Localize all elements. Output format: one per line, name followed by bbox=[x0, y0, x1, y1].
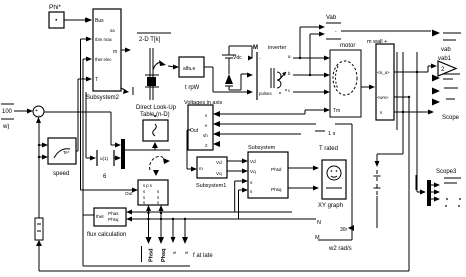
svg-text:flux calculation: flux calculation bbox=[87, 232, 126, 238]
svg-text:speed: speed bbox=[53, 171, 69, 177]
svg-text:T rated: T rated bbox=[319, 146, 338, 152]
svg-text:Vq: Vq bbox=[216, 171, 222, 176]
svg-text:s: s bbox=[380, 110, 382, 115]
svg-text:Phas: Phas bbox=[108, 211, 119, 216]
svg-text:Vd: Vd bbox=[250, 159, 256, 164]
svg-text:Scope: Scope bbox=[442, 115, 460, 121]
svg-text:s: s bbox=[157, 200, 159, 205]
svg-text:motor: motor bbox=[340, 43, 355, 49]
svg-text:s: s bbox=[143, 200, 145, 205]
svg-text:pulses: pulses bbox=[259, 91, 272, 96]
svg-text:m: m bbox=[199, 166, 203, 171]
svg-text:Phsd: Phsd bbox=[149, 249, 155, 262]
svg-text:<wm>: <wm> bbox=[377, 95, 389, 100]
svg-text:thet elec: thet elec bbox=[95, 57, 112, 62]
svg-text:Phsd: Phsd bbox=[271, 167, 282, 172]
svg-text:Bus: Bus bbox=[95, 18, 104, 24]
svg-text:alfa.e: alfa.e bbox=[183, 66, 195, 72]
svg-text:s: s bbox=[157, 189, 159, 194]
svg-text:vab: vab bbox=[441, 47, 451, 53]
svg-text:2-D T[k]: 2-D T[k] bbox=[139, 37, 161, 43]
svg-text:Phi*: Phi* bbox=[49, 4, 61, 11]
svg-text:Subsystem2: Subsystem2 bbox=[86, 95, 120, 101]
svg-text:f at late: f at late bbox=[193, 253, 213, 259]
svg-text:Vd: Vd bbox=[216, 160, 222, 165]
svg-text:inverter: inverter bbox=[268, 45, 287, 51]
svg-text:Out: Out bbox=[190, 128, 199, 134]
svg-text:Direct Look-Up: Direct Look-Up bbox=[136, 105, 177, 111]
svg-text:w2 rad/s: w2 rad/s bbox=[328, 246, 352, 252]
svg-text:Subsystem1: Subsystem1 bbox=[196, 183, 226, 189]
svg-text:sa: sa bbox=[110, 28, 115, 33]
svg-text:s p s: s p s bbox=[143, 183, 152, 188]
svg-text:Scope3: Scope3 bbox=[436, 169, 457, 175]
svg-text:Phsq: Phsq bbox=[108, 217, 119, 222]
svg-text:Phsq: Phsq bbox=[161, 249, 167, 262]
svg-text:T: T bbox=[95, 77, 98, 83]
svg-text:Subsystem: Subsystem bbox=[248, 145, 276, 151]
svg-text:t rpW: t rpW bbox=[185, 85, 200, 91]
svg-text:sh: sh bbox=[203, 133, 208, 138]
svg-text:Out: Out bbox=[125, 191, 133, 196]
svg-text:Tm: Tm bbox=[333, 108, 340, 114]
svg-text:m: m bbox=[113, 49, 117, 55]
svg-text:100: 100 bbox=[2, 109, 13, 115]
svg-text:w): w) bbox=[2, 124, 9, 130]
svg-text:Vdc: Vdc bbox=[233, 55, 242, 61]
svg-text:1 s: 1 s bbox=[328, 131, 336, 137]
svg-text:Phsq: Phsq bbox=[271, 187, 282, 192]
svg-text:Vab: Vab bbox=[326, 15, 337, 21]
svg-text:XY graph: XY graph bbox=[318, 203, 343, 209]
svg-text:Vq: Vq bbox=[250, 169, 256, 174]
svg-text:Table (n-D): Table (n-D) bbox=[140, 112, 170, 118]
svg-text:<is_a>: <is_a> bbox=[377, 70, 390, 75]
svg-text:N: N bbox=[317, 220, 321, 226]
svg-text:M: M bbox=[253, 45, 258, 51]
svg-text:vab1: vab1 bbox=[438, 56, 452, 62]
svg-text:Te*: Te* bbox=[63, 150, 70, 155]
svg-text:Ibm max: Ibm max bbox=[95, 37, 113, 42]
svg-text:u(1): u(1) bbox=[100, 156, 109, 161]
svg-text:thet: thet bbox=[96, 214, 104, 219]
svg-text:.: . bbox=[260, 73, 261, 78]
svg-text:s: s bbox=[143, 189, 145, 194]
svg-text:30r: 30r bbox=[340, 227, 348, 233]
